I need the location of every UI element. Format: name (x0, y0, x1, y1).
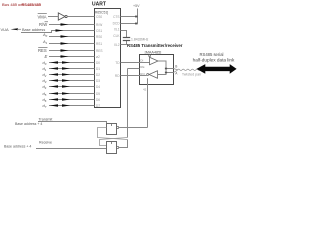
latch2 top tick (111, 142, 113, 145)
svg-text:RES: RES (96, 49, 103, 53)
wire d1 (49, 68, 95, 70)
driver enable bubble (149, 55, 151, 57)
svg-text:B: B (175, 64, 177, 68)
latch box 2 (receive) (107, 142, 117, 154)
latch2 output bubble (117, 146, 119, 148)
svg-text:Twisted pair: Twisted pair (182, 72, 202, 76)
data bus labels d0-d7 (43, 60, 47, 109)
svg-text:RES: RES (38, 48, 47, 53)
wire d6 (49, 99, 95, 101)
wire latch1 output to enable net (119, 127, 148, 129)
arrowhead R/W (61, 23, 69, 25)
svg-text:TD: TD (115, 61, 120, 65)
svg-text:RS485 Transmitter/receiver: RS485 Transmitter/receiver (127, 43, 183, 48)
svg-text:d4: d4 (43, 84, 47, 90)
twisted pair converge stubs (174, 69, 178, 70)
twisted pair squiggle (178, 69, 206, 70)
svg-text:Bus 485 on: Bus 485 on (2, 2, 23, 7)
wire base address (stepped) to UART CS1 (21, 31, 95, 33)
svg-text:RS0: RS0 (96, 35, 102, 39)
svg-text:D0: D0 (96, 61, 100, 65)
svg-text:Base address + 4: Base address + 4 (15, 122, 42, 126)
svg-text:d3: d3 (43, 78, 47, 84)
svg-text:CTS: CTS (113, 15, 119, 19)
wire Transmit (38, 122, 107, 124)
svg-text:d2: d2 (43, 72, 47, 78)
svg-text:D4: D4 (96, 85, 100, 89)
wire R/W to UART (49, 24, 95, 26)
svg-text:d6: d6 (43, 97, 47, 103)
black double-headed arrow (data link) (197, 64, 237, 74)
wire d4 (49, 86, 95, 88)
arrowhead RS0 (61, 35, 69, 37)
latch box 1 (transmit) (107, 124, 117, 135)
svg-text:A0: A0 (42, 32, 48, 38)
svg-text:D2: D2 (96, 73, 100, 77)
arrowhead CS1 (56, 29, 64, 31)
wire d0 (49, 62, 95, 64)
arrowhead PHI2 (61, 55, 69, 57)
wire driver out to bus vertical (158, 61, 167, 75)
wire RES to UART (49, 50, 95, 52)
arrowhead pointing left to VUA (11, 28, 19, 30)
crystal X1 wiring bottom (121, 41, 127, 45)
latch1 output bubble (117, 126, 119, 128)
svg-text:XL2: XL2 (114, 43, 120, 47)
svg-text:CS1: CS1 (96, 29, 102, 33)
svg-text:RS1: RS1 (96, 42, 102, 46)
label VMA (overlined) (38, 14, 47, 20)
svg-text:E: E (45, 54, 48, 59)
svg-text:R/W: R/W (39, 22, 47, 27)
svg-text:CLK: CLK (113, 34, 120, 38)
RE control vertical wire (127, 69, 129, 138)
wire CTS pull-up (121, 16, 138, 18)
svg-text:d5: d5 (43, 91, 47, 97)
wire RE control (128, 68, 140, 70)
svg-text:D5: D5 (96, 92, 100, 96)
wire A0 to RS0 (49, 36, 95, 38)
latch1 top tick (111, 124, 113, 127)
arrowhead RS1 (61, 42, 69, 44)
wire latch2 output up to cross-couple (119, 140, 128, 148)
junction dots at A/B bus (165, 68, 167, 70)
svg-text:R/W: R/W (96, 23, 102, 27)
svg-text:half-duplex data link: half-duplex data link (193, 57, 235, 62)
crystal X1 wiring top (121, 31, 127, 38)
wire Receive (36, 148, 107, 150)
wire d2 (49, 74, 95, 76)
svg-text:D6: D6 (96, 98, 100, 102)
wire d3 (49, 80, 95, 82)
svg-text:d1: d1 (43, 66, 47, 72)
svg-text:ø2: ø2 (96, 55, 100, 59)
inverter U2 (VMA buffer) (58, 13, 67, 20)
svg-text:UART: UART (92, 1, 106, 7)
crystal X1 plates (123, 37, 130, 39)
arrowhead RES (61, 49, 69, 51)
svg-text:A1: A1 (42, 39, 48, 45)
wire DCD pull-up (121, 23, 138, 25)
svg-text:1.8432MHz: 1.8432MHz (131, 37, 149, 41)
receiver gate (triangle w/ bubble) (149, 71, 158, 79)
svg-text:d7: d7 (43, 103, 47, 109)
svg-text:[MAA485]: [MAA485] (145, 50, 162, 54)
MAX485 box (140, 55, 174, 85)
svg-text:RS485 serial: RS485 serial (200, 52, 224, 57)
red annotation note top-left (2, 2, 42, 7)
UART right pin labels (113, 15, 121, 78)
enable vertical wire from MAX485 down to latch output (147, 78, 149, 127)
svg-text:d0: d0 (43, 60, 47, 66)
wire tap to A (166, 72, 174, 74)
svg-text:RS485/485: RS485/485 (22, 2, 42, 7)
junction dot DCD (135, 23, 138, 25)
svg-text:RD: RD (115, 74, 120, 78)
wire d5 (49, 93, 95, 95)
svg-text:+5V: +5V (133, 4, 140, 8)
wire VMA to inverter (48, 16, 58, 18)
svg-text:D7: D7 (96, 104, 100, 108)
wire inverter to UART CS0 (67, 16, 94, 18)
svg-text:CS0: CS0 (96, 15, 102, 19)
+5V vertical wire (137, 9, 139, 24)
svg-text:42: 42 (143, 88, 147, 92)
cross-couple wire into latch1 input (98, 128, 128, 140)
svg-text:D1: D1 (96, 67, 100, 71)
svg-text:DCD: DCD (113, 21, 121, 25)
wire A1 to RS1 (49, 43, 95, 45)
label RES (overlined) (38, 48, 48, 54)
junction dot CTS (135, 16, 138, 18)
svg-text:XL1: XL1 (114, 28, 120, 32)
driver gate (triangle) (150, 57, 159, 65)
svg-text:D3: D3 (96, 79, 100, 83)
svg-text:RE: RE (140, 65, 144, 69)
svg-text:VUA: VUA (1, 27, 10, 32)
bidirectional arrowheads d0-d7 (50, 61, 70, 106)
svg-text:DI: DI (140, 59, 143, 63)
svg-text:Base address + 4: Base address + 4 (4, 144, 31, 148)
UART left pin labels (96, 15, 103, 108)
wire RO to RxD (121, 75, 147, 77)
wire d7 (49, 105, 95, 107)
label R/W (overlined W) (39, 22, 48, 27)
cross-couple wire into latch2 input (100, 138, 128, 146)
svg-text:Base address: Base address (22, 28, 45, 32)
wire TxD to DI (121, 62, 150, 64)
svg-text:VMA: VMA (38, 14, 47, 19)
svg-text:Receive: Receive (39, 140, 52, 144)
UART IC U1 box (95, 9, 121, 108)
wire E to PHI2 (49, 56, 95, 58)
wire tap to B (166, 68, 174, 70)
